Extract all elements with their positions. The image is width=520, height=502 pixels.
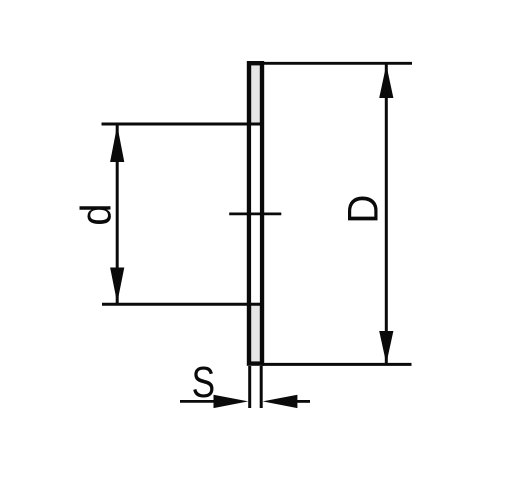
wire bottom-right outline line <box>261 363 412 366</box>
svg-text:S: S <box>192 358 215 407</box>
wire S left tail <box>180 400 216 403</box>
washer body (side view, gray fill, thick outline) <box>249 63 262 363</box>
wire top bore line (d upper) <box>102 123 264 126</box>
wire S left extension line <box>248 366 251 408</box>
arrow S right <box>263 395 298 408</box>
svg-text:d: d <box>72 204 120 226</box>
wire S right tail <box>295 400 310 403</box>
svg-text:D: D <box>338 195 387 224</box>
arrow d top <box>110 125 124 162</box>
label D <box>338 195 387 224</box>
arrow D top <box>379 65 393 98</box>
arrow S left <box>214 395 249 408</box>
label d <box>72 204 120 226</box>
wire S right extension line <box>260 366 263 408</box>
wire D dimension line <box>385 65 388 364</box>
wire top-right outline line <box>261 62 412 65</box>
arrow d bottom <box>110 268 124 304</box>
wire bottom bore line (d lower) <box>102 303 264 306</box>
wire d dimension line <box>116 125 119 303</box>
arrow D bottom <box>379 331 393 364</box>
wire center mark tick <box>229 212 281 215</box>
washer hole region (white interior between bore lines) <box>251 126 260 303</box>
